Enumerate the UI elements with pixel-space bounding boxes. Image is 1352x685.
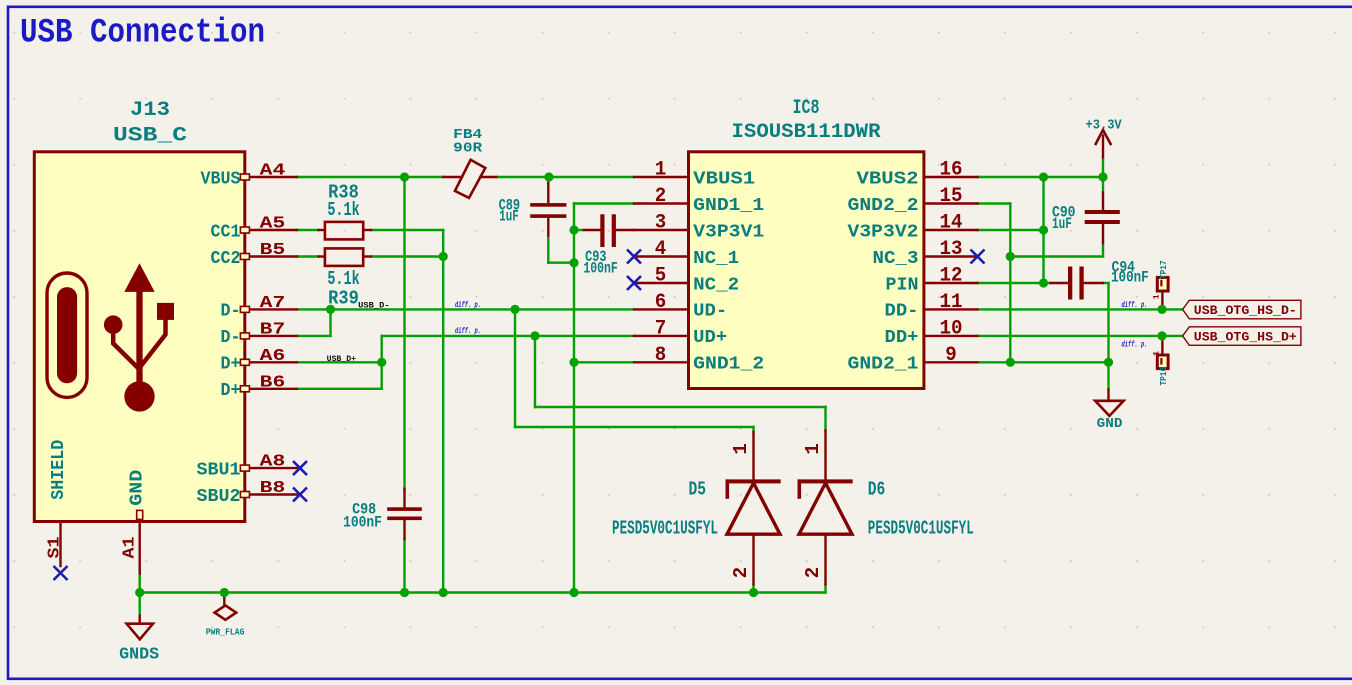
svg-text:SHIELD: SHIELD <box>49 440 69 500</box>
svg-text:diff. p.: diff. p. <box>455 327 481 336</box>
svg-text:A8: A8 <box>260 453 286 472</box>
svg-text:ISOUSB111DWR: ISOUSB111DWR <box>732 121 881 144</box>
svg-text:NC_1: NC_1 <box>693 249 739 269</box>
svg-text:SBU2: SBU2 <box>197 487 241 507</box>
svg-text:SBU1: SBU1 <box>197 460 241 480</box>
svg-text:1: 1 <box>730 443 752 454</box>
svg-text:B6: B6 <box>260 373 286 392</box>
svg-text:UD-: UD- <box>693 302 727 322</box>
svg-text:D5: D5 <box>689 479 707 501</box>
svg-text:TP17: TP17 <box>1159 260 1169 279</box>
svg-text:4: 4 <box>655 238 667 261</box>
svg-text:diff. p.: diff. p. <box>455 301 481 310</box>
svg-text:DD+: DD+ <box>885 328 919 348</box>
svg-text:NC_2: NC_2 <box>693 275 739 295</box>
svg-text:PIN: PIN <box>886 275 919 295</box>
svg-text:USB_OTG_HS_D-: USB_OTG_HS_D- <box>1194 303 1297 318</box>
svg-text:5.1k: 5.1k <box>327 199 359 221</box>
svg-text:diff. p.: diff. p. <box>1122 301 1148 310</box>
svg-text:6: 6 <box>655 291 667 314</box>
svg-text:2: 2 <box>655 185 667 208</box>
svg-text:5: 5 <box>655 265 667 288</box>
svg-text:diff. p.: diff. p. <box>1122 341 1148 350</box>
svg-text:90R: 90R <box>453 141 483 157</box>
svg-text:CC1: CC1 <box>211 222 241 242</box>
svg-text:PESD5V0C1USFYL: PESD5V0C1USFYL <box>868 517 974 539</box>
svg-text:USB Connection: USB Connection <box>20 15 265 53</box>
svg-text:14: 14 <box>940 212 963 235</box>
svg-text:B5: B5 <box>260 241 286 260</box>
svg-text:GND2_1: GND2_1 <box>848 355 919 375</box>
svg-text:3: 3 <box>655 212 667 235</box>
svg-text:GND: GND <box>1097 416 1123 432</box>
svg-text:1: 1 <box>1153 351 1162 356</box>
svg-text:16: 16 <box>940 159 963 182</box>
svg-text:13: 13 <box>940 238 963 261</box>
svg-text:TP16: TP16 <box>1159 367 1169 386</box>
svg-text:CC2: CC2 <box>211 249 241 269</box>
svg-text:1uF: 1uF <box>1052 215 1072 233</box>
svg-text:S1: S1 <box>46 537 65 559</box>
svg-text:UD+: UD+ <box>693 328 727 348</box>
svg-text:D-: D- <box>221 302 241 322</box>
svg-text:100nF: 100nF <box>583 260 617 278</box>
svg-text:VBUS: VBUS <box>201 169 241 189</box>
svg-text:9: 9 <box>945 344 957 367</box>
svg-text:D+: D+ <box>221 381 241 401</box>
svg-text:5.1k: 5.1k <box>327 268 359 290</box>
svg-text:V3P3V1: V3P3V1 <box>693 222 764 242</box>
svg-text:USB_D-: USB_D- <box>358 301 390 311</box>
svg-text:V3P3V2: V3P3V2 <box>848 222 919 242</box>
svg-text:D6: D6 <box>868 479 886 501</box>
svg-text:GND1_1: GND1_1 <box>693 196 764 216</box>
svg-text:GND: GND <box>127 469 147 505</box>
svg-text:A6: A6 <box>260 347 286 366</box>
svg-text:15: 15 <box>940 185 963 208</box>
svg-text:10: 10 <box>940 317 963 340</box>
svg-text:1: 1 <box>655 159 667 182</box>
svg-text:B8: B8 <box>260 479 286 498</box>
svg-text:2: 2 <box>730 567 752 578</box>
svg-text:GND1_2: GND1_2 <box>693 355 764 375</box>
svg-text:GNDS: GNDS <box>119 646 159 665</box>
svg-text:100nF: 100nF <box>1111 269 1149 287</box>
svg-text:A4: A4 <box>260 162 286 181</box>
svg-text:PESD5V0C1USFYL: PESD5V0C1USFYL <box>612 517 718 539</box>
svg-text:R39: R39 <box>328 288 359 310</box>
svg-text:A1: A1 <box>121 537 140 559</box>
svg-text:7: 7 <box>655 317 667 340</box>
svg-text:100nF: 100nF <box>343 514 382 532</box>
svg-text:D-: D- <box>221 328 241 348</box>
svg-text:USB_D+: USB_D+ <box>327 354 357 364</box>
svg-text:1: 1 <box>802 443 824 454</box>
svg-text:VBUS2: VBUS2 <box>857 169 919 189</box>
svg-text:8: 8 <box>655 344 667 367</box>
svg-text:DD-: DD- <box>885 302 919 322</box>
svg-text:12: 12 <box>940 265 963 288</box>
svg-text:A5: A5 <box>260 215 286 234</box>
svg-text:USB_OTG_HS_D+: USB_OTG_HS_D+ <box>1194 330 1297 345</box>
svg-text:USB_C: USB_C <box>113 125 187 148</box>
svg-text:GND2_2: GND2_2 <box>848 196 919 216</box>
svg-text:11: 11 <box>940 291 963 314</box>
svg-text:VBUS1: VBUS1 <box>693 169 755 189</box>
svg-text:1: 1 <box>1153 294 1162 299</box>
svg-text:2: 2 <box>802 567 824 578</box>
svg-text:D+: D+ <box>221 355 241 375</box>
svg-text:IC8: IC8 <box>793 97 820 120</box>
svg-text:PWR_FLAG: PWR_FLAG <box>206 627 245 637</box>
svg-text:A7: A7 <box>260 294 286 313</box>
svg-text:1uF: 1uF <box>499 208 519 226</box>
svg-text:J13: J13 <box>130 99 170 122</box>
svg-text:NC_3: NC_3 <box>873 249 919 269</box>
svg-text:B7: B7 <box>260 320 286 339</box>
svg-text:+3.3V: +3.3V <box>1086 119 1123 134</box>
